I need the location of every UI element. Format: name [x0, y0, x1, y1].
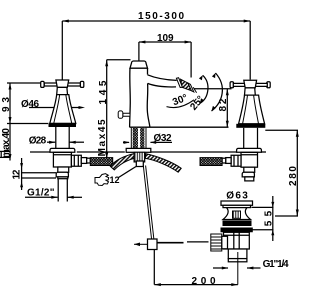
drain neck — [223, 208, 251, 220]
left valve body — [53, 152, 90, 167]
right supply hose — [200, 158, 222, 166]
C12 clip symbol — [95, 174, 109, 186]
arc under 30 text — [167, 100, 195, 108]
swivel arc inner — [200, 75, 208, 103]
deck section left edge — [0, 151, 10, 157]
svg-text:145: 145 — [98, 80, 109, 104]
washer wing right — [146, 154, 182, 173]
svg-text:Ø28: Ø28 — [29, 135, 47, 146]
column body — [130, 68, 229, 127]
wheel bracket — [222, 236, 228, 249]
svg-text:Ø46: Ø46 — [21, 99, 39, 110]
right valve body — [222, 152, 257, 167]
svg-text:200: 200 — [192, 276, 216, 287]
svg-text:12: 12 — [110, 175, 120, 185]
drain tailpipe — [228, 249, 247, 262]
spout arm bottom edge — [148, 83, 176, 87]
washer wing left — [110, 154, 134, 170]
column threaded shank above deck — [131, 128, 146, 149]
aerator collar — [176, 78, 182, 88]
shank nut — [136, 161, 143, 167]
svg-text:G1"1/4: G1"1/4 — [263, 259, 289, 270]
svg-text:Ø32: Ø32 — [154, 133, 172, 144]
spout arm top edge — [148, 75, 177, 81]
base plate — [126, 148, 151, 152]
svg-text:Max45: Max45 — [97, 119, 108, 156]
dim 93 — [7, 83, 48, 124]
pop-up knob on column — [118, 111, 130, 118]
aerator body — [181, 79, 192, 91]
svg-text:82: 82 — [218, 98, 229, 111]
svg-text:12: 12 — [11, 169, 22, 179]
dim 145 / Max45 — [107, 60, 131, 159]
svg-text:max.40: max.40 — [1, 128, 12, 158]
dim max.40 — [9, 124, 11, 161]
svg-text:109: 109 — [157, 33, 174, 44]
dim 109 arrows — [139, 41, 191, 44]
right handle crossbar — [230, 80, 270, 88]
dim 12 — [22, 158, 56, 190]
svg-text:280: 280 — [288, 166, 299, 186]
deck line — [30, 151, 266, 153]
left handle stem — [56, 127, 69, 149]
drain body — [224, 232, 250, 249]
left handle neck — [57, 87, 68, 94]
left handle crossbar — [41, 80, 84, 87]
dim 200 — [154, 250, 238, 285]
knurled wheel — [211, 234, 222, 251]
dim diameter 32 — [123, 141, 172, 143]
left valve lower — [56, 167, 68, 202]
rod clamp — [148, 239, 158, 250]
swivel arc outer — [212, 73, 223, 111]
drain plug stem — [233, 211, 241, 218]
right handle stem — [244, 128, 258, 149]
drain gasket band 2 — [221, 228, 253, 233]
threaded shank below deck — [134, 152, 145, 162]
right handle flare — [239, 95, 265, 124]
right flange — [237, 148, 262, 152]
left flange — [50, 148, 75, 152]
dim 150-300 arrows — [62, 20, 250, 23]
pop-up rod — [143, 166, 154, 239]
column cap — [130, 61, 148, 68]
left handle base bar — [49, 123, 77, 127]
dim 280 — [265, 130, 298, 216]
dim 82 — [194, 89, 232, 127]
aerator end line — [193, 87, 196, 93]
right handle neck — [245, 88, 256, 95]
right handle base bar — [236, 124, 265, 128]
left supply hose — [90, 158, 112, 166]
aerator tip — [188, 83, 194, 92]
drain cap — [221, 201, 253, 208]
svg-text:150-300: 150-300 — [138, 11, 184, 22]
dim 109 line — [139, 42, 191, 78]
left handle flare — [50, 95, 76, 124]
drain gasket band 1 — [223, 221, 252, 227]
drain axis line — [237, 252, 239, 285]
svg-text:Ø63: Ø63 — [226, 191, 248, 202]
dim 150-300 line — [62, 21, 250, 80]
linkage rod — [157, 242, 184, 244]
dim 55 — [252, 196, 274, 241]
right valve lower — [242, 167, 255, 181]
